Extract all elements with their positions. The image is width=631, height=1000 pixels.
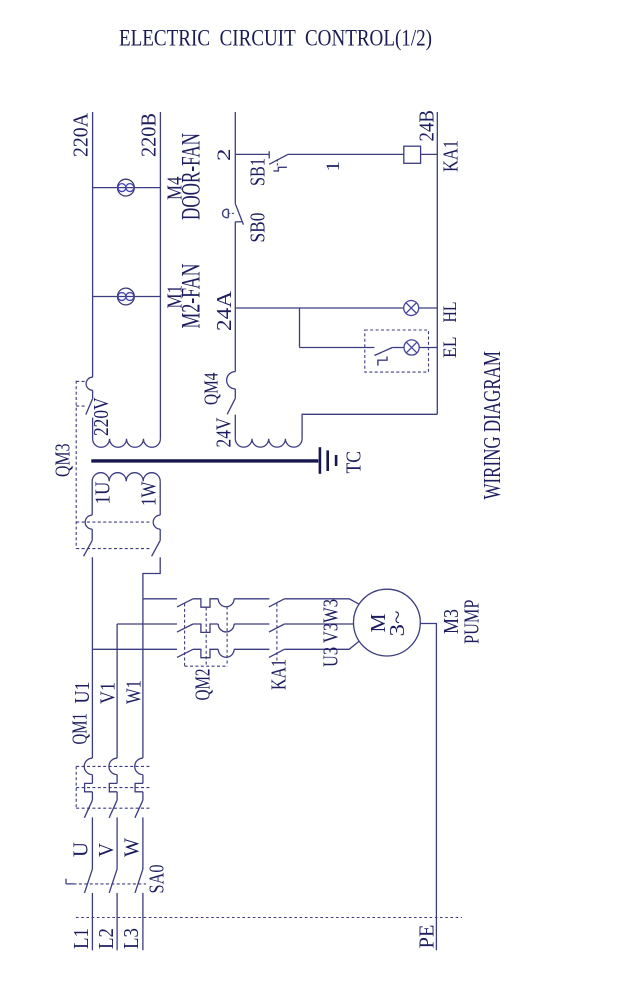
breaker QM1 pole 3: [135, 758, 143, 869]
contactor KA1 pole 3: [269, 641, 359, 657]
svg-text:SB0: SB0: [246, 213, 270, 243]
svg-text:V: V: [94, 843, 118, 857]
wire motor branch row 1: [143, 598, 177, 600]
breaker QM3 pole 2: [84, 481, 93, 556]
wire motor branch row 2: [117, 623, 177, 625]
breaker QM4: [227, 372, 236, 439]
svg-text:PUMP: PUMP: [460, 600, 484, 645]
svg-text:EL: EL: [440, 337, 461, 359]
wire phase W jog from transformer: [143, 557, 160, 599]
wire coil KA1 to right rail: [421, 153, 438, 155]
wire lamp EL to rail: [419, 347, 437, 349]
wire node 2 vertical upper: [234, 112, 236, 204]
wire phase U vertical: [91, 557, 93, 758]
motor M3: [354, 589, 421, 656]
svg-text:L3: L3: [119, 928, 143, 949]
svg-text:QM1: QM1: [68, 713, 92, 745]
breaker QM2 pole 1: [177, 599, 269, 607]
svg-text:U3 V3W3: U3 V3W3: [319, 599, 343, 667]
QM3 dashed linkage: [76, 381, 151, 549]
wire 220A vertical: [92, 112, 94, 377]
wire fan M1 row: [93, 296, 161, 298]
svg-text:1W: 1W: [137, 481, 161, 506]
svg-text:U1: U1: [70, 682, 94, 704]
SA0 handle: [66, 879, 74, 884]
svg-text:SA0: SA0: [145, 865, 169, 894]
lamp HL: [404, 301, 419, 316]
svg-text:WIRING DIAGRAM: WIRING DIAGRAM: [480, 351, 506, 500]
pushbutton SB0: [223, 204, 244, 225]
contactor KA1 pole 2: [269, 624, 354, 632]
wire phase W vertical: [142, 599, 144, 758]
breaker QM2 pole 3: [177, 649, 269, 657]
svg-text:24V: 24V: [212, 418, 236, 448]
breaker QM1 pole 1: [84, 758, 92, 869]
svg-text:SB1: SB1: [246, 158, 270, 186]
svg-text:ELECTRIC CIRCUIT CONTROL(1/2: ELECTRIC CIRCUIT CONTROL(1/2): [119, 26, 432, 52]
svg-text:KA1: KA1: [439, 140, 463, 172]
pushbutton SB1: [269, 151, 288, 171]
svg-text:QM2: QM2: [191, 669, 215, 701]
svg-text:KA1: KA1: [267, 659, 291, 690]
svg-text:M2-FAN: M2-FAN: [177, 263, 206, 328]
transformer TC core bar: [91, 459, 318, 462]
breaker QM3 pole 3: [152, 481, 161, 556]
svg-text:TC: TC: [342, 451, 366, 474]
wire EL branch horizontal: [300, 347, 375, 349]
wire 1 from SB1 to KA1 coil: [288, 153, 404, 155]
svg-text:DOOR-FAN: DOOR-FAN: [177, 133, 206, 220]
dashed enclosure EL: [365, 330, 429, 372]
relay coil KA1: [404, 146, 421, 163]
svg-text:220V: 220V: [89, 398, 113, 437]
switch SA0 pole 3: [135, 869, 143, 950]
breaker QM3 pole 1: [86, 377, 93, 439]
winding secondary 1U 1W: [92, 473, 160, 482]
winding 24V: [235, 439, 302, 447]
svg-text:HL: HL: [440, 302, 461, 323]
transformer TC earth symbol: [320, 447, 336, 474]
svg-text:2: 2: [214, 149, 235, 162]
wire SB1 rung from node 2: [235, 153, 269, 155]
svg-text:L2: L2: [94, 928, 118, 949]
wire motor branch row 3: [92, 648, 177, 650]
svg-text:PE: PE: [415, 925, 439, 949]
wire phase V vertical: [116, 624, 118, 758]
svg-text:L1: L1: [69, 928, 93, 949]
svg-text:QM3: QM3: [51, 444, 75, 478]
switch in EL box: [374, 348, 404, 366]
wire fan M4 row: [93, 187, 161, 189]
svg-text:220B: 220B: [136, 113, 160, 157]
svg-text:U: U: [69, 842, 93, 857]
fan M4: [118, 179, 135, 196]
fan M1: [118, 288, 135, 305]
svg-text:W: W: [120, 838, 144, 857]
wire motor to PE rail: [420, 624, 436, 951]
wire 220B vertical: [159, 112, 161, 439]
QM1 dashed linkage: [76, 766, 150, 808]
svg-text:1U: 1U: [91, 482, 115, 505]
breaker QM1 pole 2: [109, 758, 117, 869]
breaker QM2 pole 2: [177, 624, 269, 632]
contactor KA1 pole 1: [269, 599, 359, 607]
switch SA0 pole 1: [85, 869, 93, 950]
svg-text:QM4: QM4: [202, 372, 223, 405]
wire 24A rung: [235, 307, 437, 309]
supply boundary dotted line: [76, 917, 462, 919]
wire node 2 vertical lower to 24A and QM4: [234, 222, 236, 372]
svg-text:W1: W1: [122, 680, 146, 704]
wire EL branch drop: [299, 308, 301, 348]
svg-text:3~: 3~: [385, 611, 409, 637]
KA1 contacts dashed linkage: [276, 604, 278, 663]
winding 220V: [93, 439, 161, 447]
wire right rail vertical: [436, 112, 438, 414]
svg-text:24A: 24A: [212, 290, 236, 331]
QM2 dashed linkage: [185, 604, 228, 667]
svg-text:24B: 24B: [415, 110, 439, 142]
SA0 dashed linkage: [74, 883, 147, 885]
svg-text:220A: 220A: [69, 112, 93, 157]
switch SA0 pole 2: [109, 869, 117, 950]
wire 24V winding to rail: [302, 414, 437, 439]
lamp EL: [404, 340, 419, 355]
svg-text:1: 1: [323, 161, 344, 172]
svg-text:V1: V1: [96, 682, 120, 704]
